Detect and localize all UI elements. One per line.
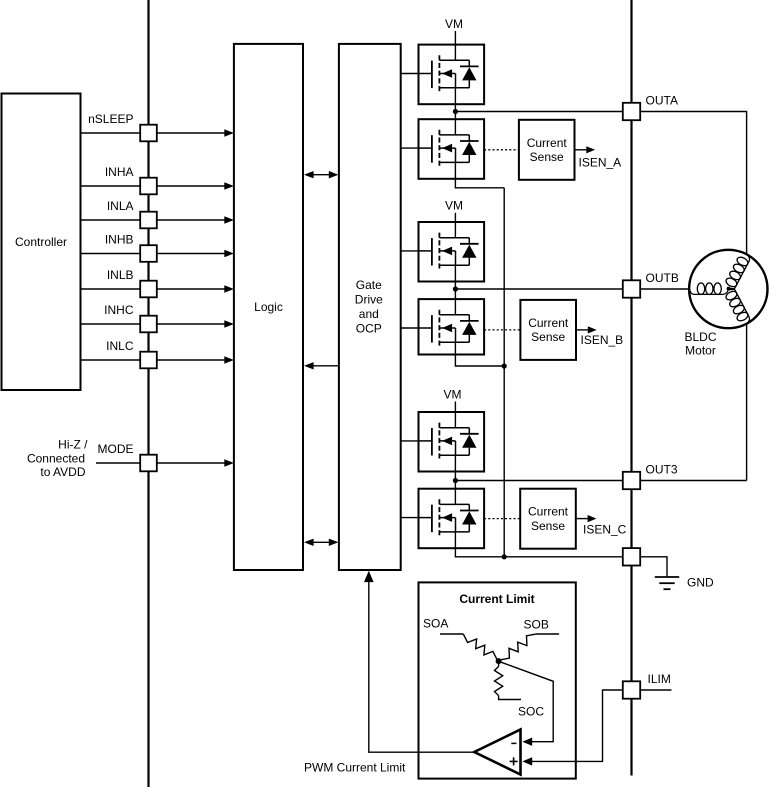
pin ILIM — [623, 672, 671, 699]
op-amp current limit comparator — [474, 730, 520, 775]
wire OUT3 from half-bridge — [455, 480, 622, 482]
wire OUT3 to motor phase C (right connector) — [640, 480, 746, 482]
wire gate drive to high-side FET phase A — [401, 73, 432, 75]
svg-text:PWM Current Limit: PWM Current Limit — [304, 761, 406, 775]
svg-text:ISEN_B: ISEN_B — [581, 333, 624, 347]
wire phase A half-bridge midpoint — [454, 88, 456, 135]
svg-text:INHB: INHB — [105, 233, 134, 247]
transistor high-side FET phase A — [419, 45, 485, 105]
svg-text:Logic: Logic — [254, 300, 283, 314]
logic block — [234, 44, 303, 570]
wire INHC from controller — [81, 320, 234, 327]
svg-text:and: and — [359, 307, 379, 321]
current sense block phase C — [520, 489, 576, 549]
wire ILIM external stub — [640, 689, 671, 691]
wire logic to gate drive bus (top, bidirectional) — [304, 171, 338, 178]
svg-text:Connected: Connected — [27, 451, 85, 465]
wire ILIM to comparator non-inverting input — [522, 690, 622, 766]
wire gate drive to high-side FET phase B — [401, 250, 432, 252]
wire left device boundary rail — [147, 0, 149, 787]
pin PGND — [623, 548, 640, 565]
wire phase B half-bridge midpoint — [454, 265, 456, 315]
pin INHA — [105, 165, 157, 194]
wire sense tap phase C (dashed) — [484, 518, 520, 520]
transistor low-side FET phase C — [419, 489, 485, 549]
node junction resistor star point — [496, 658, 502, 664]
wire sense tap phase A (dashed) — [484, 149, 519, 151]
wire phase B low-side source to sense trunk — [455, 342, 504, 366]
wire nSLEEP from controller — [81, 129, 234, 136]
svg-text:Hi-Z /: Hi-Z / — [58, 438, 88, 452]
transistor high-side FET phase B — [419, 222, 485, 282]
svg-text:ILIM: ILIM — [648, 672, 671, 686]
wire INHA from controller — [81, 182, 234, 189]
node junction phase C output — [453, 478, 458, 483]
wire ISEN_C output — [576, 515, 627, 537]
transistor low-side FET phase A — [419, 119, 485, 179]
wire gate drive to low-side FET phase B — [401, 327, 432, 329]
svg-text:Current Limit: Current Limit — [459, 592, 534, 606]
pin INHC — [104, 303, 157, 332]
node junction sense trunk to PGND — [502, 554, 507, 559]
svg-text:VM: VM — [444, 388, 462, 402]
resistor SOA — [440, 634, 497, 660]
wire ISEN_B output — [576, 326, 623, 347]
pin MODE — [98, 442, 157, 471]
svg-text:INLA: INLA — [107, 199, 134, 213]
current limit block — [419, 582, 576, 778]
svg-text:OUTB: OUTB — [646, 271, 679, 285]
wire motor winding phase C — [723, 286, 752, 326]
svg-text:Motor: Motor — [685, 344, 716, 358]
wire INLA from controller — [81, 216, 234, 223]
pin INLA — [107, 199, 157, 228]
wire INLB from controller — [81, 285, 234, 292]
svg-text:Gate: Gate — [356, 278, 382, 292]
svg-text:MODE: MODE — [98, 442, 134, 456]
pin nSLEEP — [88, 112, 157, 141]
wire OUTB from half-bridge — [455, 288, 622, 290]
node Hi-Z / Connected to AVDD annotation — [27, 438, 88, 479]
svg-text:Current: Current — [528, 505, 569, 519]
wire phase C half-bridge midpoint — [454, 455, 456, 504]
pin INLC — [106, 339, 157, 368]
wire star point to comparator inverting input — [500, 662, 553, 746]
svg-text:Drive: Drive — [355, 293, 383, 307]
wire INLC from controller — [81, 356, 234, 363]
svg-text:VM: VM — [445, 199, 463, 213]
svg-text:Sense: Sense — [531, 330, 565, 344]
wire OUTB to motor — [640, 288, 689, 290]
wire gate drive to logic feedback (middle) — [304, 362, 338, 369]
wire motor winding phase B — [690, 283, 729, 295]
node motor star point — [727, 287, 731, 291]
svg-text:OUTA: OUTA — [646, 94, 678, 108]
svg-text:SOA: SOA — [423, 617, 448, 631]
current sense block phase A — [519, 120, 575, 180]
node VM phase C — [444, 388, 462, 428]
wire ISEN_A output — [575, 146, 622, 169]
pin OUTB — [623, 271, 679, 298]
current sense block phase B — [520, 300, 576, 360]
pin INLB — [107, 268, 157, 297]
svg-text:BLDC: BLDC — [684, 330, 716, 344]
wire phase A low-side source to sense trunk — [455, 162, 504, 187]
svg-text:INHA: INHA — [105, 165, 134, 179]
pin OUTA — [623, 94, 678, 121]
wire sense trunk — [503, 188, 505, 557]
controller block — [2, 94, 81, 391]
wire gate drive to low-side FET phase A — [401, 147, 432, 149]
wire PGND to ground — [640, 557, 667, 577]
svg-text:nSLEEP: nSLEEP — [88, 112, 133, 126]
node VM phase A — [445, 17, 463, 60]
wire right device boundary rail — [630, 0, 632, 776]
svg-text:VM: VM — [445, 17, 463, 31]
wire gate drive to low-side FET phase C — [401, 517, 432, 519]
node VM phase B — [445, 199, 463, 238]
svg-text:Current: Current — [527, 136, 568, 150]
svg-text:Sense: Sense — [530, 150, 564, 164]
svg-text:INLB: INLB — [107, 268, 134, 282]
svg-text:SOC: SOC — [518, 705, 544, 719]
svg-text:Controller: Controller — [15, 235, 67, 249]
transistor high-side FET phase C — [419, 412, 485, 472]
wire INHB from controller — [81, 250, 234, 257]
node junction phase A output — [453, 109, 458, 114]
wire comparator output PWM current limit to gate drive — [304, 571, 474, 775]
gate drive and OCP block — [339, 44, 401, 570]
node junction phase B output — [453, 286, 458, 291]
svg-text:INLC: INLC — [106, 339, 134, 353]
wire MODE — [96, 459, 234, 466]
resistor SOB — [500, 634, 559, 660]
svg-text:SOB: SOB — [524, 618, 549, 632]
svg-text:OUT3: OUT3 — [646, 463, 678, 477]
pin OUT3 — [623, 463, 678, 490]
svg-text:Current: Current — [528, 316, 569, 330]
wire OUTA to motor phase A (right connector) — [640, 112, 746, 481]
node junction phase B source on trunk — [502, 363, 507, 368]
svg-text:ISEN_C: ISEN_C — [583, 523, 627, 537]
wire sense tap phase B (dashed) — [484, 329, 520, 331]
wire phase C low-side source to PGND pin — [455, 532, 622, 557]
svg-text:OCP: OCP — [356, 322, 382, 336]
svg-text:ISEN_A: ISEN_A — [579, 156, 622, 170]
BLDC motor — [684, 250, 767, 358]
wire gate drive to high-side FET phase C — [401, 440, 432, 442]
wire logic to gate drive bus (bottom, bidirectional) — [304, 539, 338, 546]
svg-text:Sense: Sense — [531, 519, 565, 533]
wire OUTA from half-bridge — [455, 111, 622, 113]
resistor SOC — [495, 661, 522, 699]
pin INHB — [105, 233, 157, 262]
transistor low-side FET phase B — [419, 299, 485, 354]
svg-text:INHC: INHC — [104, 303, 134, 317]
svg-text:to AVDD: to AVDD — [40, 465, 85, 479]
svg-text:GND: GND — [687, 576, 714, 590]
wire motor winding phase A — [723, 251, 752, 291]
ground — [655, 576, 714, 590]
